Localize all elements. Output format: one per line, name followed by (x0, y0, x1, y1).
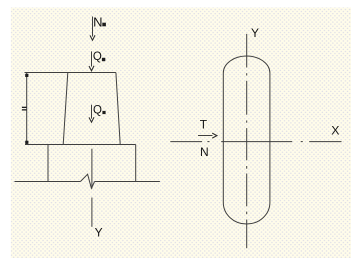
dimension line H (26, 73, 28, 145)
X axis dots (207, 141, 209, 143)
X axis dashes (170, 141, 202, 143)
subscript box Q1 (102, 58, 105, 61)
shaft left edge (47, 145, 49, 182)
svg-text:Q: Q (93, 51, 102, 63)
Y axis dashes (246, 34, 248, 68)
svg-text:Y: Y (95, 226, 103, 240)
pier cap right slant (116, 73, 120, 145)
wire: Q2 load arrow shaft (91, 105, 93, 119)
svg-text:Y: Y (251, 26, 259, 40)
T arrow shaft (198, 135, 213, 137)
ground line right segment (95, 181, 160, 183)
dimension tick bottom (25, 141, 28, 144)
dimension tick top (25, 74, 28, 77)
pier cap left slant (63, 73, 68, 145)
right figure: obround outline (223, 56, 270, 224)
left centerline dash 2 (91, 198, 93, 227)
break symbol (80, 174, 94, 188)
arrowhead T (212, 133, 217, 138)
subscript box N (102, 23, 106, 27)
svg-text:T: T (200, 118, 208, 132)
Y axis dots (246, 73, 248, 75)
arrowhead Q2 (89, 117, 94, 122)
svg-text:Q: Q (93, 104, 102, 116)
left centerline dash 1 (91, 149, 93, 189)
pier cap bottom edge (25, 144, 136, 146)
wire: N load arrow shaft (92, 17, 94, 37)
arrowhead N (90, 35, 95, 40)
ground line left segment (15, 181, 81, 183)
wire: Q1 load arrow shaft (91, 51, 93, 66)
shaft right edge (135, 145, 137, 182)
svg-text:X: X (331, 124, 339, 138)
arrowhead Q1 (89, 66, 94, 71)
pier cap top edge + dimension extension (25, 72, 116, 74)
svg-text:N: N (200, 145, 209, 159)
subscript box Q2 (102, 111, 105, 114)
equals mark bar 1 (22, 107, 27, 108)
equals mark bar 2 (22, 109, 27, 110)
svg-text:N: N (93, 15, 102, 30)
